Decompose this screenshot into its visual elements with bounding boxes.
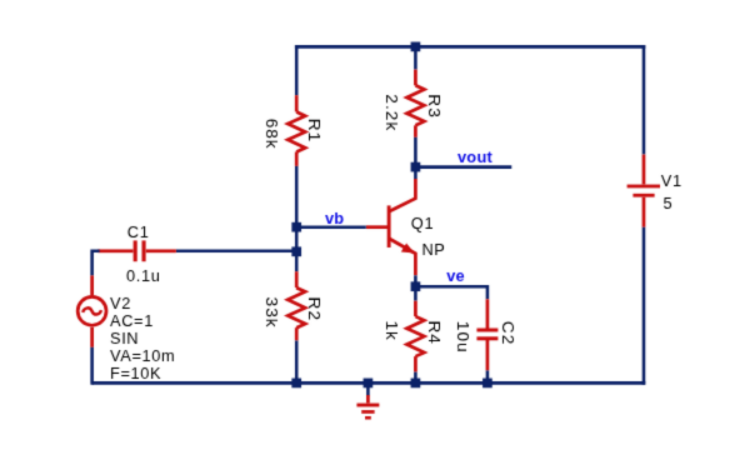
resistor R2 bbox=[288, 272, 305, 341]
label 1k bbox=[383, 321, 402, 342]
label V1 bbox=[661, 174, 682, 191]
label 33k bbox=[263, 297, 282, 328]
wire vb bbox=[297, 226, 367, 229]
wire R3 to vout junction bbox=[414, 137, 417, 179]
wire C2 bottom bbox=[486, 371, 489, 385]
battery V1 bbox=[627, 154, 660, 227]
label 68k bbox=[263, 118, 282, 149]
label R1 bbox=[305, 118, 324, 142]
label F=10K bbox=[110, 366, 162, 383]
source V2 bbox=[78, 276, 107, 348]
wire ve row bbox=[416, 285, 488, 288]
node junction ground bbox=[363, 378, 373, 388]
label C1 bbox=[127, 224, 149, 241]
wire bottom rail bbox=[92, 381, 645, 384]
resistor R1 bbox=[288, 95, 305, 166]
label 0.1u bbox=[126, 268, 160, 285]
label C2 bbox=[498, 321, 517, 345]
node junction vout bbox=[411, 162, 421, 172]
transistor Q1 bbox=[366, 179, 416, 276]
node junction ve bbox=[411, 282, 421, 292]
wire ground stub bbox=[366, 383, 369, 396]
node junction C2 bottom bbox=[483, 378, 493, 388]
capacitor C1 bbox=[98, 241, 176, 262]
wire R3 column top bbox=[414, 45, 417, 69]
node ve bbox=[447, 268, 465, 285]
wire C1 row bbox=[176, 249, 296, 252]
wire emitter to ve junction bbox=[414, 275, 417, 300]
label AC=1 bbox=[110, 313, 154, 330]
label 10u bbox=[453, 321, 472, 353]
wire R1 column top bbox=[295, 45, 298, 95]
label SIN bbox=[110, 331, 139, 348]
label V2 bbox=[110, 296, 131, 313]
wire V1 column top bbox=[642, 45, 645, 154]
label R3 bbox=[425, 94, 444, 118]
node junction vb bbox=[292, 222, 302, 232]
wire V2 top corner bbox=[92, 251, 100, 276]
label R4 bbox=[425, 321, 444, 345]
label Q1 bbox=[411, 215, 434, 232]
wire R4 bottom bbox=[414, 372, 417, 383]
resistor R4 bbox=[407, 301, 424, 372]
node vb bbox=[325, 210, 344, 227]
label 2.2k bbox=[383, 94, 402, 131]
node junction C1 bbox=[292, 247, 302, 257]
wire V2 bottom bbox=[90, 347, 93, 384]
label R2 bbox=[305, 297, 324, 321]
wire V1 column bottom bbox=[642, 227, 645, 384]
capacitor C2 bbox=[477, 299, 498, 370]
node junction top R3 bbox=[411, 42, 421, 52]
label VA=10m bbox=[110, 348, 175, 365]
label 5 bbox=[663, 196, 673, 213]
node junction R4 bottom bbox=[411, 378, 421, 388]
wire R2 bottom to rail bbox=[295, 341, 298, 383]
node vout bbox=[458, 150, 493, 167]
wire C2 top bbox=[486, 287, 488, 300]
node junction R2 bottom bbox=[292, 378, 302, 388]
wire top rail bbox=[295, 45, 645, 48]
label NP bbox=[422, 242, 446, 259]
resistor R3 bbox=[407, 70, 424, 138]
wire vout bbox=[416, 165, 512, 168]
ground bbox=[357, 395, 379, 418]
wire R1 bottom to R2 top bbox=[295, 166, 298, 271]
